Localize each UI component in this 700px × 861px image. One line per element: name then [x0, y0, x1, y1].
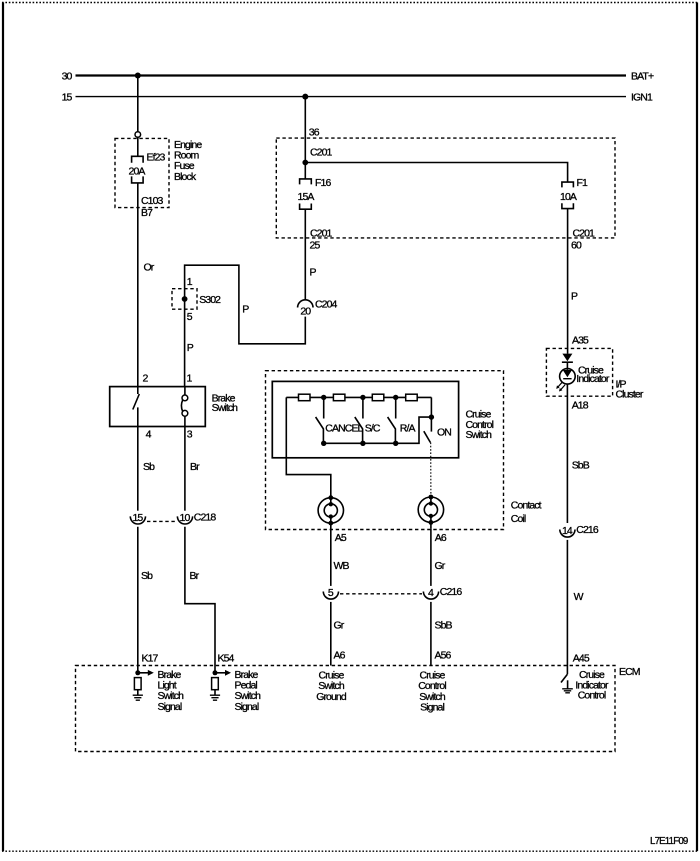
- svg-text:Signal: Signal: [235, 701, 259, 713]
- svg-text:Ef23: Ef23: [147, 151, 166, 163]
- cruise control switch inner box: [272, 381, 493, 457]
- connector circle at fuse block entry: [135, 132, 141, 138]
- wire Sb lower to K17: [138, 527, 159, 673]
- node C201 junction: [302, 160, 308, 166]
- fuse block C201 dashed box: [276, 138, 615, 238]
- wire rail30 to fuse block: [137, 76, 139, 132]
- wire bus to F1: [305, 163, 567, 183]
- svg-text:Br: Br: [190, 461, 200, 473]
- svg-text:20A: 20A: [129, 165, 146, 177]
- svg-text:10A: 10A: [560, 191, 577, 203]
- wire F16 to C204: [305, 209, 332, 299]
- wire top bus: [286, 396, 431, 398]
- svg-text:ECM: ECM: [619, 666, 640, 678]
- svg-text:A6: A6: [435, 532, 447, 544]
- svg-text:30: 30: [62, 71, 73, 83]
- svg-text:Contact: Contact: [511, 500, 542, 512]
- svg-text:Cluster: Cluster: [616, 388, 644, 400]
- svg-text:Br: Br: [190, 570, 200, 582]
- svg-text:10: 10: [180, 512, 191, 524]
- svg-text:C216: C216: [576, 524, 599, 536]
- svg-text:L7E11F09: L7E11F09: [650, 835, 688, 847]
- svg-text:S302: S302: [199, 294, 221, 306]
- wire bottom bus: [324, 417, 432, 443]
- wire Or: [138, 183, 155, 387]
- contact coil A5: [318, 495, 343, 529]
- svg-text:C103: C103: [141, 195, 164, 207]
- switch R/A: [388, 397, 416, 446]
- connector C216 pin 14: [560, 524, 599, 537]
- svg-text:P: P: [571, 291, 578, 303]
- svg-text:A45: A45: [573, 652, 590, 664]
- svg-text:Gr: Gr: [334, 620, 345, 632]
- svg-text:S/C: S/C: [365, 422, 381, 434]
- svg-text:Or: Or: [144, 262, 155, 274]
- wire IGN1 rail 15: [62, 92, 653, 104]
- drawing number: [650, 835, 688, 847]
- svg-text:C204: C204: [315, 299, 338, 311]
- connector C216 pin 5: [323, 587, 338, 599]
- ECM dashed box: [76, 666, 640, 752]
- svg-text:P: P: [310, 267, 317, 279]
- svg-text:Gr: Gr: [435, 560, 446, 572]
- fuse F1 10A: [560, 177, 588, 208]
- ECM pin K17 brake light switch signal: [133, 669, 184, 713]
- IP cluster dashed box: [546, 348, 643, 400]
- wire left drop to coil A5: [286, 397, 331, 497]
- svg-text:W: W: [574, 591, 584, 603]
- svg-text:C201: C201: [310, 228, 333, 240]
- switch CANCEL: [316, 397, 364, 446]
- node bus dot 1: [321, 395, 326, 400]
- connector C204 pin 20: [298, 299, 338, 318]
- svg-text:BAT+: BAT+: [631, 71, 654, 83]
- splice S302: [172, 276, 221, 323]
- wire Gr coil A6 to C216: [431, 529, 447, 586]
- svg-text:15: 15: [62, 92, 73, 104]
- svg-text:C201: C201: [310, 147, 333, 159]
- svg-text:WB: WB: [334, 560, 350, 572]
- wire WB coil A5 to C216: [331, 530, 350, 586]
- LED cruise indicator: [556, 354, 610, 392]
- svg-text:C216: C216: [440, 586, 463, 598]
- wire BAT+ rail 30: [62, 71, 654, 83]
- wire Gr to A6 ECM: [331, 602, 346, 666]
- svg-text:SbB: SbB: [572, 460, 590, 472]
- svg-text:ON: ON: [437, 427, 451, 439]
- ECM pin A45 cruise indicator control driver: [561, 666, 609, 702]
- node junction on rail 15: [302, 94, 308, 100]
- brake switch box: [110, 372, 238, 440]
- Engine Room Fuse Block dashed box: [115, 138, 202, 207]
- wire SbB to A56 ECM: [431, 602, 453, 666]
- brake switch pole right pins 1-3: [181, 387, 187, 427]
- svg-text:CANCEL: CANCEL: [325, 422, 363, 434]
- wire stub to F16: [304, 163, 306, 179]
- svg-text:F16: F16: [315, 177, 331, 189]
- fuse Ef23 20A: [129, 151, 166, 219]
- svg-text:Sb: Sb: [141, 570, 153, 582]
- resistor R4: [406, 394, 418, 401]
- svg-text:SbB: SbB: [435, 620, 453, 632]
- svg-text:25: 25: [310, 240, 321, 252]
- svg-text:C218: C218: [194, 511, 217, 523]
- switch ON: [424, 397, 451, 442]
- svg-text:Signal: Signal: [420, 702, 444, 714]
- svg-text:Signal: Signal: [158, 701, 182, 713]
- wire Br lower to K54: [185, 527, 235, 673]
- switch S/C: [355, 397, 381, 446]
- wire W to A45 ECM: [567, 540, 589, 666]
- ECM label cruise switch ground: [316, 669, 347, 702]
- contact coil A6: [418, 495, 443, 529]
- svg-text:R/A: R/A: [400, 422, 416, 434]
- node bus dot 2: [360, 395, 365, 400]
- wire mechanical linkage ON to coil: [430, 443, 432, 496]
- svg-text:A35: A35: [572, 335, 589, 347]
- svg-text:14: 14: [562, 525, 573, 537]
- svg-text:Indicator: Indicator: [576, 373, 610, 385]
- svg-text:K17: K17: [142, 652, 159, 664]
- svg-text:15: 15: [132, 512, 143, 524]
- svg-text:A5: A5: [335, 532, 347, 544]
- svg-text:P: P: [242, 303, 249, 315]
- svg-text:Sb: Sb: [143, 461, 155, 473]
- ECM label cruise control switch signal: [418, 669, 446, 713]
- connector C218 pin 15: [130, 512, 145, 524]
- svg-text:Coil: Coil: [511, 513, 526, 525]
- svg-text:15A: 15A: [298, 191, 315, 203]
- wire P F1 to cruise indicator: [568, 209, 595, 354]
- svg-text:IGN1: IGN1: [631, 92, 653, 104]
- wire Br upper: [185, 427, 200, 511]
- svg-text:36: 36: [309, 126, 320, 138]
- resistor R1: [299, 394, 311, 401]
- svg-text:C201: C201: [573, 228, 596, 240]
- svg-text:K54: K54: [218, 652, 235, 664]
- resistor R3: [372, 394, 384, 401]
- wire P route C204 to S302: [185, 265, 306, 344]
- wire circle to fuse Ef23: [137, 137, 139, 156]
- connector C218 pin 10: [177, 511, 216, 524]
- wire P S302 to brake switch: [185, 289, 194, 387]
- svg-text:Control: Control: [578, 689, 606, 701]
- svg-text:F1: F1: [577, 177, 589, 189]
- svg-text:Switch: Switch: [466, 429, 493, 441]
- svg-text:Switch: Switch: [212, 402, 239, 414]
- svg-text:20: 20: [300, 305, 311, 317]
- svg-text:Block: Block: [174, 171, 197, 183]
- resistor R2: [333, 394, 345, 401]
- svg-text:A6: A6: [334, 650, 346, 662]
- svg-text:A18: A18: [572, 400, 589, 412]
- connector C216 pin 4: [423, 586, 462, 599]
- ECM pin K54 brake pedal switch signal: [210, 669, 261, 713]
- svg-text:B7: B7: [141, 207, 153, 219]
- svg-text:Ground: Ground: [316, 691, 347, 703]
- svg-text:P: P: [187, 342, 194, 354]
- svg-text:A56: A56: [435, 650, 452, 662]
- node bus dot 3: [393, 395, 398, 400]
- svg-text:60: 60: [571, 240, 582, 252]
- fuse F16 15A: [298, 177, 332, 209]
- wire rail15 to C201 box: [305, 97, 319, 163]
- node junction on rail 30: [135, 73, 141, 79]
- wire SbB indicator to C216: [567, 384, 589, 523]
- wire dashed link C218: [147, 520, 176, 522]
- cruise control switch outer dashed box: [266, 371, 542, 530]
- brake switch pole left pins 2-4: [133, 387, 140, 427]
- wire dashed link C216: [340, 593, 422, 595]
- wire Sb upper: [138, 427, 155, 511]
